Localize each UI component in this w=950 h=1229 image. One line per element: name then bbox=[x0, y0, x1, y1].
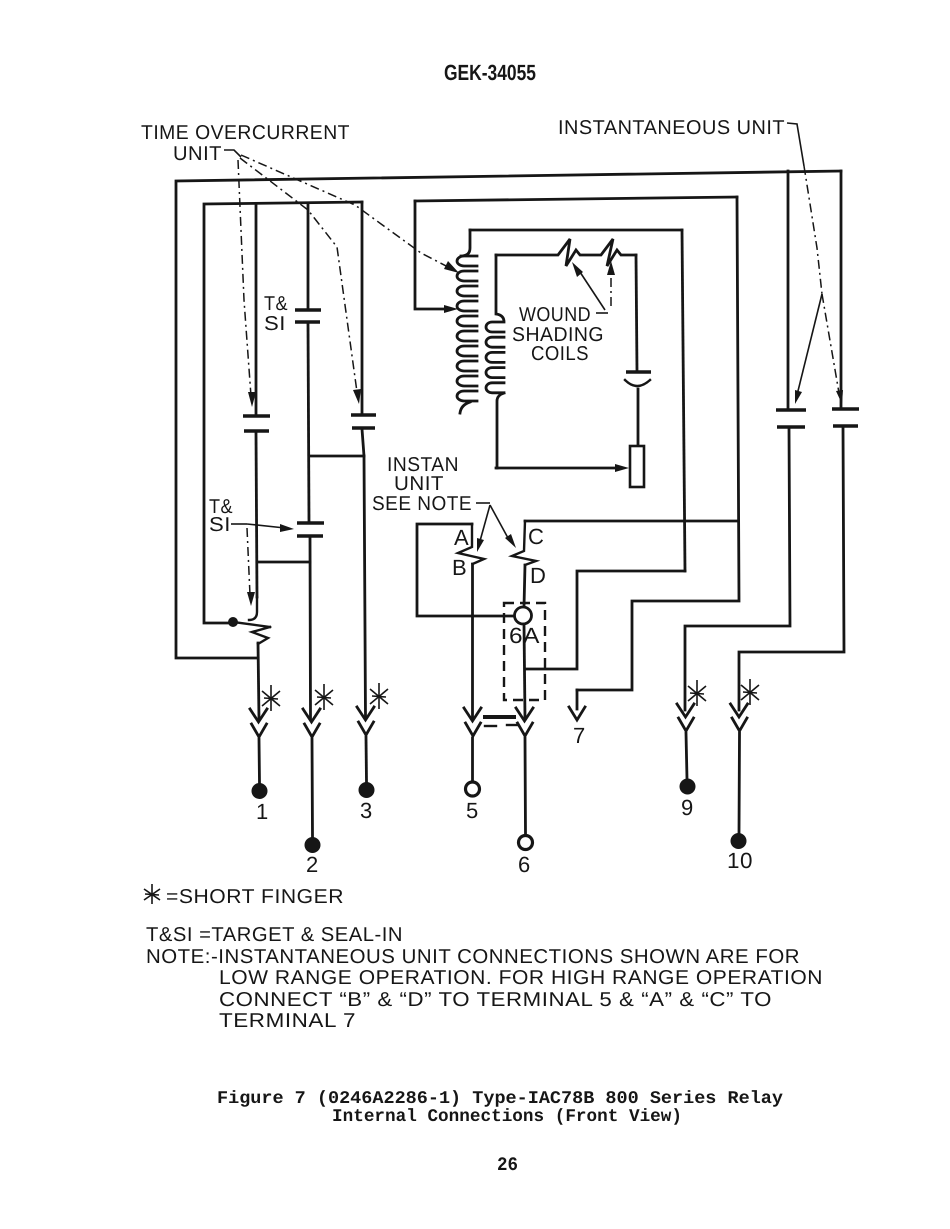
wire capacitor C5 to resistor R1 bbox=[637, 389, 640, 446]
linkage bar dashed bbox=[485, 725, 518, 726]
wire contact B to terminal 5 arrow bbox=[471, 564, 474, 718]
dashed enclosure instantaneous contact bbox=[504, 603, 545, 700]
svg-text:TIME OVERCURRENT: TIME OVERCURRENT bbox=[141, 122, 350, 144]
svg-text:10: 10 bbox=[727, 848, 753, 873]
wire junction right to staircase bbox=[525, 571, 685, 669]
wire instantaneous left branch bbox=[787, 171, 790, 410]
terminal 1 stud bbox=[252, 783, 268, 799]
arrowhead at switch bbox=[247, 592, 255, 606]
label T&SI upper bbox=[264, 293, 288, 335]
svg-text:TERMINAL 7: TERMINAL 7 bbox=[219, 1010, 356, 1032]
label WOUND SHADING COILS bbox=[512, 304, 604, 365]
leader arrow to contact A-B bbox=[480, 505, 490, 541]
coil L2 shading winding bbox=[486, 255, 504, 468]
terminal 9 stud bbox=[680, 779, 696, 795]
arrowhead at break 2 bbox=[607, 261, 615, 275]
svg-text:UNIT: UNIT bbox=[173, 143, 222, 165]
label INSTAN UNIT SEE NOTE bbox=[372, 454, 472, 515]
svg-text:7: 7 bbox=[573, 723, 586, 748]
leader dash from SI bbox=[231, 523, 247, 525]
terminal arrow 6 bbox=[516, 708, 533, 736]
wire box1 right branch upper bbox=[361, 202, 364, 414]
svg-text:LOW RANGE OPERATION. FOR HIGH: LOW RANGE OPERATION. FOR HIGH RANGE OPER… bbox=[219, 967, 823, 989]
contact C-D zigzag bbox=[512, 521, 536, 565]
svg-text:INSTANTANEOUS UNIT: INSTANTANEOUS UNIT bbox=[558, 117, 785, 139]
arrowhead at break 1 bbox=[572, 262, 583, 277]
capacitor C1 bbox=[243, 416, 270, 431]
svg-text:2: 2 bbox=[306, 852, 319, 877]
short finger star 9 bbox=[688, 680, 706, 706]
wire below capacitor C3 to terminal 3 arrow bbox=[362, 429, 366, 717]
svg-text:Figure 7 (0246A2286-1) Type-: Figure 7 (0246A2286-1) Type-IAC78B 800 S… bbox=[217, 1089, 783, 1109]
leader to capacitor C3 (dash-dot) bbox=[240, 158, 357, 392]
wire box4 right edge down bbox=[636, 255, 637, 371]
arrowhead at contact A-B bbox=[477, 538, 484, 552]
svg-text:26: 26 bbox=[497, 1154, 518, 1176]
leader hook after INSTANTANEOUS UNIT bbox=[787, 123, 804, 166]
terminal 3 stud bbox=[359, 782, 375, 798]
wire jog y562 bbox=[257, 561, 310, 564]
svg-text:5: 5 bbox=[466, 798, 479, 823]
leader dash-dot to break 2 bbox=[610, 270, 612, 306]
wire box3 right edge bbox=[682, 230, 685, 571]
linkage bar solid bbox=[483, 715, 516, 719]
wire arrow to terminal 1 bbox=[258, 739, 261, 783]
svg-text:COILS: COILS bbox=[531, 343, 589, 365]
wire arrow to terminal 2 bbox=[311, 739, 314, 837]
terminal arrow 7 bbox=[576, 690, 579, 709]
short finger star 3 bbox=[370, 683, 388, 709]
wire outer loop left and top bbox=[176, 171, 841, 658]
leader arrow to contact C-D bbox=[490, 505, 508, 538]
wire box4 top with shading coil breaks bbox=[496, 239, 636, 266]
svg-text:C: C bbox=[528, 524, 544, 549]
capacitor C4 (lower T&SI) bbox=[297, 523, 324, 536]
wire box4 bottom to resistor bbox=[496, 467, 616, 470]
wire contact D to contact 6A bbox=[524, 565, 525, 607]
leader branch to left contact (solid) bbox=[797, 294, 822, 395]
wire box2 right edge bbox=[577, 197, 739, 690]
capacitor C5 top plate bbox=[626, 370, 651, 373]
terminal 6 stud open bbox=[519, 836, 533, 850]
arrowhead left contact bbox=[795, 390, 802, 404]
terminal 2 stud bbox=[305, 837, 321, 853]
leader branch to right contact (dash-dot) bbox=[822, 294, 839, 393]
wire capacitor C1 branch upper bbox=[255, 204, 258, 414]
coil L1 primary winding bbox=[457, 230, 477, 413]
svg-text:B: B bbox=[452, 555, 467, 580]
contact A-B zigzag bbox=[458, 524, 484, 564]
switch SW1 junction dot bbox=[228, 617, 238, 627]
arrowhead tap into coil bbox=[444, 305, 458, 313]
contact 6A circle bbox=[515, 607, 532, 624]
wire arrow to terminal 9 bbox=[686, 733, 687, 779]
wire middle branch between capacitors bbox=[308, 323, 309, 522]
wire below capacitor C4 to terminal 2 arrow bbox=[309, 537, 312, 719]
fixed contact hook bbox=[249, 597, 257, 620]
resistor R1 bbox=[630, 446, 644, 487]
svg-text:T&: T& bbox=[264, 293, 288, 315]
terminal arrow 10 bbox=[731, 704, 748, 731]
leader solid to break 1 bbox=[578, 269, 605, 310]
wire box2 top (main unit loop) bbox=[415, 197, 737, 201]
wire box2 left edge to coil tap bbox=[415, 201, 444, 309]
svg-text:3: 3 bbox=[360, 798, 373, 823]
svg-text:=SHORT FINGER: =SHORT FINGER bbox=[166, 886, 344, 908]
terminal 10 stud bbox=[731, 833, 747, 849]
capacitor C2 (T&SI) bbox=[295, 310, 321, 322]
terminal 5 stud open bbox=[466, 782, 480, 796]
wire arrow to terminal 10 bbox=[738, 733, 741, 834]
arrowhead at capacitor C3 bbox=[353, 389, 361, 404]
short finger star 1 bbox=[262, 685, 280, 711]
svg-text:D: D bbox=[530, 563, 546, 588]
wire arrow to terminal 5 bbox=[471, 738, 474, 781]
terminal arrow 1 bbox=[250, 709, 267, 737]
leader dash-dot to switch bbox=[247, 528, 250, 595]
wire 6A bottom to junction and terminal 6 arrow bbox=[524, 624, 525, 718]
leader arrow to capacitor C4 bbox=[247, 524, 285, 528]
wire switch to terminal 1 arrow bbox=[258, 643, 259, 719]
wire capacitor C1 to switch bbox=[256, 433, 257, 597]
svg-text:A: A bbox=[454, 525, 469, 550]
label T&SI lower bbox=[209, 496, 233, 536]
leader dash after SEE NOTE bbox=[476, 502, 490, 504]
switch SW1 zigzag bbox=[252, 627, 270, 644]
terminal arrow 2 bbox=[303, 709, 320, 737]
wire instantaneous right branch bbox=[840, 171, 843, 409]
wire arrow to terminal 3 bbox=[365, 737, 368, 782]
svg-text:SEE NOTE: SEE NOTE bbox=[372, 493, 472, 515]
arrowhead at resistor bbox=[615, 464, 629, 472]
svg-text:WOUND: WOUND bbox=[519, 304, 591, 326]
short finger star 2 bbox=[315, 684, 333, 710]
svg-text:CONNECT “B” & “D” TO TERMINAL: CONNECT “B” & “D” TO TERMINAL 5 & “A” & … bbox=[219, 989, 772, 1011]
arrowhead at capacitor C1 bbox=[248, 392, 256, 407]
svg-text:UNIT: UNIT bbox=[394, 473, 444, 495]
label TIME OVERCURRENT UNIT bbox=[141, 122, 350, 165]
wire left contact down and to terminal 9 bbox=[685, 427, 790, 710]
arrowhead at capacitor C4 bbox=[280, 524, 294, 532]
terminal arrow 3 bbox=[357, 707, 374, 735]
leader hook after UNIT bbox=[224, 150, 241, 157]
terminal arrow 9 bbox=[677, 704, 694, 731]
wire jog y456 bbox=[309, 455, 364, 458]
contact K1 right bars bbox=[832, 409, 859, 426]
wire C to box2 right edge bbox=[525, 520, 738, 523]
svg-text:1: 1 bbox=[256, 799, 269, 824]
capacitor C5 curved plate bbox=[625, 380, 650, 386]
svg-text:9: 9 bbox=[681, 795, 694, 820]
svg-text:NOTE:-INSTANTANEOUS UNIT CONNE: NOTE:-INSTANTANEOUS UNIT CONNECTIONS SHO… bbox=[146, 946, 800, 968]
svg-text:GEK-34055: GEK-34055 bbox=[444, 60, 536, 85]
svg-text:Internal Connections (Front Vi: Internal Connections (Front View) bbox=[332, 1107, 682, 1127]
leader dash-dot down to contacts bbox=[804, 166, 822, 294]
svg-text:T&SI =TARGET & SEAL-IN: T&SI =TARGET & SEAL-IN bbox=[146, 924, 403, 946]
wire right contact down and to terminal 10 bbox=[739, 426, 844, 710]
arrowhead right contact bbox=[836, 390, 843, 404]
terminal arrow 5 bbox=[464, 708, 481, 736]
arrowhead at coil bbox=[444, 261, 459, 273]
wire arrow to terminal 6 bbox=[524, 738, 527, 835]
wire box A (instantaneous aux loop) bbox=[417, 524, 514, 616]
svg-text:SI: SI bbox=[209, 514, 231, 536]
short finger star 10 bbox=[741, 679, 759, 705]
wire box3 top (coil box) bbox=[470, 229, 682, 232]
wire box1 outline (time overcurrent unit left box) bbox=[204, 202, 362, 623]
svg-text:SI: SI bbox=[264, 313, 286, 335]
leader to main coil (dash-dot) bbox=[241, 155, 450, 268]
contact K1 left bars bbox=[776, 410, 806, 427]
arrowhead at contact C-D bbox=[505, 534, 516, 548]
wire middle branch upper bbox=[307, 204, 310, 309]
switch SW1 arm bbox=[233, 622, 270, 627]
leader to capacitor C1 (dash-dot) bbox=[238, 160, 251, 396]
legend short finger star bbox=[144, 884, 160, 904]
arrow chevron 7 bbox=[569, 707, 585, 720]
leader dash after WOUND bbox=[596, 312, 608, 314]
svg-text:6: 6 bbox=[518, 852, 531, 877]
capacitor C3 bbox=[351, 415, 376, 428]
